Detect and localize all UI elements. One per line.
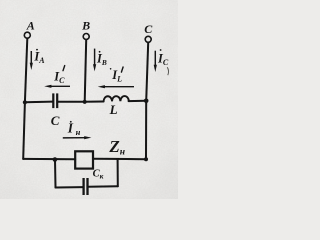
capacitor C_K plates bbox=[84, 178, 88, 195]
wire: phase A lower vertical bbox=[23, 102, 25, 159]
wire: phase C vertical bbox=[146, 43, 148, 101]
paper background bbox=[0, 0, 178, 199]
svg-text:B: B bbox=[81, 19, 90, 33]
junction node load right corner bbox=[144, 157, 148, 161]
wire: phase A vertical bbox=[25, 39, 27, 103]
wire: inductor branch right segment bbox=[129, 100, 147, 102]
junction node bottom tap bbox=[53, 157, 58, 162]
current arrow I_H (load) bbox=[63, 136, 92, 139]
svg-text:L: L bbox=[109, 102, 118, 117]
wire: bottom loop left vertical bbox=[54, 159, 57, 187]
wire: load right horizontal bbox=[93, 158, 146, 161]
wire: bottom loop right horizontal bbox=[88, 185, 117, 187]
junction node C-branch bbox=[144, 99, 149, 104]
current arrow I_A bbox=[30, 51, 33, 70]
terminal C bbox=[145, 36, 151, 42]
inductor L coil bbox=[104, 96, 129, 101]
junction node A-branch bbox=[23, 100, 27, 104]
current arrow I_C bbox=[154, 51, 157, 72]
svg-text:A: A bbox=[26, 18, 35, 32]
load Z_H rectangle bbox=[75, 151, 93, 168]
wire: phase C lower vertical bbox=[145, 101, 147, 159]
wire: bottom loop right vertical bbox=[117, 159, 119, 186]
terminal B bbox=[83, 34, 89, 40]
wire: bottom-left horizontal to load bbox=[23, 158, 75, 160]
svg-text:C: C bbox=[51, 113, 60, 128]
wire: capacitor branch left segment bbox=[25, 101, 53, 104]
terminal A bbox=[24, 32, 30, 38]
junction node B-branch bbox=[83, 100, 87, 104]
stray scan mark right of I_C bbox=[167, 67, 168, 75]
current arrow I'_L (inductor branch) bbox=[98, 85, 134, 88]
capacitor C plates bbox=[53, 93, 57, 108]
current arrow I'_C (capacitor branch) bbox=[44, 85, 70, 88]
wire: inductor branch left segment bbox=[85, 101, 104, 103]
wire: capacitor branch right segment bbox=[58, 101, 85, 103]
wire: bottom loop left horizontal bbox=[56, 186, 83, 188]
wire: phase B vertical bbox=[85, 40, 87, 102]
current arrow I_B bbox=[93, 49, 96, 72]
svg-text:C: C bbox=[144, 22, 153, 36]
